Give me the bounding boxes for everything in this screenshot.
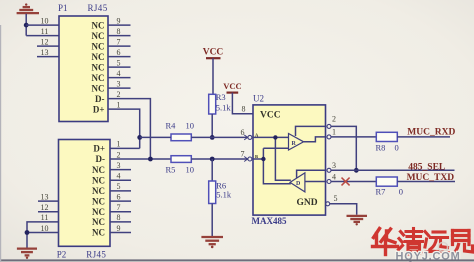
- P2 right pin numbers: [117, 140, 121, 233]
- svg-text:NC: NC: [92, 20, 105, 30]
- resistor R3 5.1k (pull-up): [209, 94, 216, 114]
- junction: D- net: [148, 157, 153, 162]
- svg-text:0: 0: [395, 143, 399, 153]
- frame edges: [0, 259, 474, 261]
- svg-text:2: 2: [332, 115, 336, 124]
- pin 4 circle: [327, 180, 331, 184]
- connector P1 RJ45 body: [59, 16, 108, 122]
- svg-text:11: 11: [41, 27, 49, 36]
- driver triangle D: [290, 173, 305, 192]
- wire: R3 to A net: [211, 114, 213, 137]
- svg-text:NC: NC: [92, 186, 105, 196]
- svg-text:NC: NC: [92, 217, 105, 227]
- svg-text:8: 8: [242, 105, 246, 114]
- resistor R7 0: [376, 177, 397, 186]
- svg-text:7: 7: [117, 203, 121, 212]
- svg-text:NC: NC: [92, 196, 105, 206]
- ground (bottom-left, for P2 pins 10/11): [17, 249, 37, 259]
- svg-text:D+: D+: [93, 144, 105, 154]
- watermark char 2 (qing): [399, 229, 423, 255]
- svg-text:NC: NC: [92, 62, 105, 72]
- wire: pin 3 to 485_SEL: [331, 169, 455, 171]
- svg-text:6: 6: [241, 128, 245, 137]
- svg-text:VCC: VCC: [203, 48, 224, 58]
- svg-text:10: 10: [41, 224, 49, 233]
- svg-text:13: 13: [41, 48, 49, 57]
- svg-text:R4: R4: [166, 121, 177, 131]
- no-ERC X on pin 4: [342, 178, 350, 186]
- pin 5 circle: [326, 202, 330, 206]
- pin 7 chevron: [244, 157, 247, 162]
- svg-text:NC: NC: [92, 176, 105, 186]
- svg-text:7: 7: [241, 150, 245, 159]
- pin 2 circle: [327, 124, 331, 128]
- wire: P1 pin 10: [26, 24, 59, 26]
- svg-text:NC: NC: [92, 41, 105, 51]
- svg-text:VCC: VCC: [260, 111, 281, 121]
- svg-text:MUC_RXD: MUC_RXD: [407, 128, 455, 138]
- wire: receiver output to pin 1: [304, 137, 326, 142]
- svg-text:8: 8: [117, 213, 121, 222]
- svg-text:2: 2: [117, 150, 121, 159]
- svg-text:4: 4: [117, 172, 121, 181]
- junction: pin2/pin3 net: [354, 168, 359, 173]
- wire: VCC to R3: [212, 58, 214, 94]
- wire: pin 2 to 485_SEL net: [331, 126, 356, 170]
- wire: P1 pin 11: [26, 35, 59, 37]
- svg-text:5.1k: 5.1k: [216, 190, 232, 200]
- wire: P1 pin 1 (D+) to vertical: [108, 109, 140, 148]
- svg-text:4: 4: [117, 69, 121, 78]
- receiver triangle R: [289, 134, 304, 151]
- watermark char 3 (yuan): [424, 232, 448, 253]
- svg-text:MAX485: MAX485: [252, 216, 287, 226]
- wire: R7 to MUC_TXD: [397, 181, 455, 183]
- wire: pin 5 to ground: [330, 204, 357, 215]
- junction: R6/B net: [210, 157, 215, 162]
- junction: pin10/ground: [25, 230, 30, 235]
- wire: P2 pin 12 stub: [38, 211, 59, 213]
- wire: P2 pin 10: [27, 232, 59, 234]
- wire: R5 to U2 pin 7: [191, 158, 247, 160]
- svg-text:10: 10: [41, 16, 49, 25]
- watermark char 4 (jian): [452, 231, 473, 255]
- resistor R6 5.1k (pull-down): [209, 181, 216, 204]
- wire: pin 1 to R8: [331, 136, 376, 138]
- svg-text:4: 4: [332, 172, 336, 181]
- wire: P2 pin 11: [27, 222, 59, 248]
- svg-text:RJ45: RJ45: [86, 249, 106, 259]
- svg-text:7: 7: [117, 37, 121, 46]
- svg-text:12: 12: [41, 37, 49, 46]
- watermark HQYJ.COM: [438, 242, 447, 251]
- svg-text:NC: NC: [92, 228, 105, 238]
- pin 3 circle: [327, 168, 331, 172]
- svg-text:1: 1: [117, 100, 121, 109]
- wire: R4 to U2 pin 6: [191, 136, 247, 138]
- resistor R5 10: [171, 156, 191, 163]
- junction: D+ net: [137, 135, 142, 140]
- svg-text:5: 5: [117, 58, 121, 67]
- svg-text:11: 11: [41, 213, 49, 222]
- pin 6 chevron: [244, 135, 247, 140]
- svg-text:3: 3: [117, 161, 121, 170]
- svg-text:NC: NC: [92, 73, 105, 83]
- svg-text:D+: D+: [93, 104, 105, 114]
- svg-text:MUC_TXD: MUC_TXD: [407, 173, 455, 183]
- P1 pin names: [92, 20, 105, 114]
- svg-text:1: 1: [332, 128, 336, 137]
- svg-text:10: 10: [186, 165, 195, 175]
- svg-text:8: 8: [117, 27, 121, 36]
- junction: ground / pin10: [24, 23, 29, 28]
- svg-text:485_SEL: 485_SEL: [408, 163, 445, 173]
- svg-text:13: 13: [41, 192, 49, 201]
- svg-text:R5: R5: [166, 165, 176, 175]
- connector P2 RJ45 body: [59, 140, 111, 247]
- svg-text:D-: D-: [96, 154, 106, 164]
- wire: B net to R6: [211, 159, 213, 181]
- svg-text:6: 6: [117, 48, 121, 57]
- svg-text:D-: D-: [95, 94, 105, 104]
- junction: A inside: [273, 135, 277, 139]
- wire: ground stem to P1 pins 10/11: [25, 14, 27, 36]
- svg-text:U2: U2: [253, 93, 264, 103]
- resistor R4 10: [171, 134, 191, 141]
- IC U2 MAX485 body: [253, 105, 326, 215]
- power VCC (above R3): [203, 48, 224, 59]
- svg-text:3: 3: [332, 161, 336, 170]
- power VCC (to U2 pin 8): [223, 81, 241, 93]
- P2 pin names: [92, 144, 105, 238]
- junction: R3/A net: [210, 135, 215, 140]
- svg-text:9: 9: [117, 224, 121, 233]
- svg-text:NC: NC: [92, 207, 105, 217]
- resistor R8 0: [376, 132, 397, 141]
- wire: RE enable inside (pin 2): [296, 126, 326, 136]
- svg-text:5.1k: 5.1k: [216, 103, 232, 113]
- svg-text:D: D: [296, 181, 301, 187]
- wire: A net inside (pin6 to receiver + down to driver out): [253, 136, 289, 138]
- svg-text:NC: NC: [92, 31, 105, 41]
- wire: P1 pin 13 stub: [37, 56, 59, 58]
- wire: R8 to MUC_RXD: [397, 136, 450, 138]
- wire: R6 to ground: [211, 204, 213, 237]
- svg-text:P2: P2: [57, 249, 67, 259]
- svg-text:RJ45: RJ45: [88, 3, 108, 13]
- wire: P2 pin 13 stub: [38, 200, 59, 202]
- svg-text:5: 5: [117, 182, 121, 191]
- wire: DE enable inside (pin 3): [297, 170, 326, 178]
- svg-text:R3: R3: [216, 92, 226, 102]
- P1 right pin numbers: [117, 16, 121, 109]
- svg-text:NC: NC: [92, 83, 105, 93]
- pin 7 circle: [248, 157, 252, 161]
- svg-text:9: 9: [117, 16, 121, 25]
- svg-text:5: 5: [334, 194, 338, 203]
- svg-text:GND: GND: [297, 198, 318, 208]
- svg-text:2: 2: [117, 90, 121, 99]
- svg-text:0: 0: [399, 186, 403, 196]
- svg-text:R: R: [292, 141, 297, 147]
- svg-text:VCC: VCC: [223, 81, 241, 91]
- wire: DI inside (pin 4): [305, 181, 326, 183]
- pin 6 circle: [248, 135, 252, 139]
- ground (top-left, for P1 pins 10/11): [17, 3, 39, 13]
- wire: P2 pin 1 (D+) up to D+ net: [110, 147, 140, 149]
- watermark char 1 (hua): [373, 229, 398, 255]
- wire: P1 pin 12 stub: [37, 45, 59, 47]
- ground (below R6): [201, 237, 223, 248]
- wire: pin 4 to R7: [331, 181, 376, 183]
- svg-text:3: 3: [117, 79, 121, 88]
- ground (U2 pin 5): [347, 216, 368, 226]
- svg-text:NC: NC: [92, 165, 105, 175]
- svg-text:12: 12: [41, 203, 49, 212]
- wire: D+ junction to R4: [140, 136, 171, 138]
- svg-text:6: 6: [117, 192, 121, 201]
- wire: P2 pin 2 (D-) to R5: [110, 158, 171, 160]
- P1 right stubs pins 9..3: [108, 25, 131, 88]
- svg-text:NC: NC: [92, 52, 105, 62]
- svg-text:R7: R7: [376, 186, 386, 196]
- wire: VCC to U2 pin 8: [232, 93, 253, 114]
- wire: B net inside (pin7 to receiver + driver out): [253, 158, 263, 160]
- junction: B inside: [261, 157, 265, 161]
- svg-text:10: 10: [186, 121, 195, 131]
- svg-text:P1: P1: [58, 3, 68, 13]
- svg-text:R8: R8: [376, 143, 386, 153]
- pin 1 circle: [327, 135, 331, 139]
- svg-text:1: 1: [117, 140, 121, 149]
- wire: P1 pin 2 (D-) to vertical: [108, 99, 150, 159]
- P2 right stubs pins 3..9: [110, 170, 131, 233]
